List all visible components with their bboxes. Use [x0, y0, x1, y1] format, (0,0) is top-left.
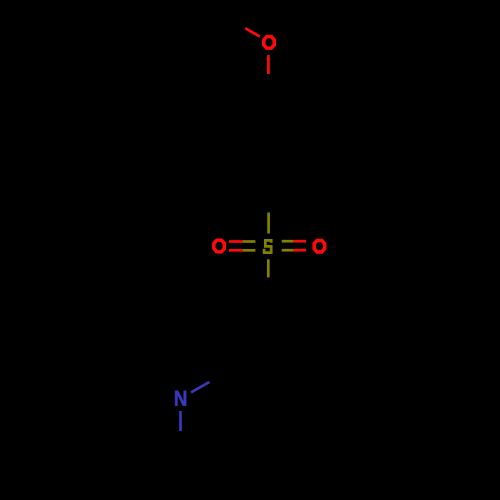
bond CH3-O (methoxy methyl to O, O-colored half) — [245, 28, 259, 36]
double bond S=O left, upper line S-half — [243, 240, 256, 243]
double bond S=O left, upper line O-half — [229, 240, 243, 243]
double bond S=O right, upper line S-half — [282, 240, 294, 243]
bond S-CH2 (sulfur to chain carbon, S-colored half) — [267, 259, 270, 277]
atom label S (sulfonyl sulfur) — [263, 239, 273, 254]
double bond S=O left, lower line S-half — [243, 249, 256, 252]
double bond S=O left, lower line O-half — [229, 249, 243, 252]
bond O-C1 (oxygen to ring carbon, O-colored half) — [267, 55, 270, 74]
atom label N (amine nitrogen) — [175, 391, 186, 406]
double bond S=O right, lower line O-half — [293, 249, 306, 252]
double bond S=O right, upper line O-half — [293, 240, 306, 243]
atom label O (sulfonyl left oxygen) — [212, 239, 226, 254]
double bond S=O right, lower line S-half — [282, 249, 294, 252]
bond N-CH3 (nitrogen to methyl, N-colored half) — [179, 411, 182, 431]
bond C-N (chain carbon to nitrogen, N-colored half) — [191, 382, 209, 392]
atom label O (methoxy oxygen) — [262, 35, 276, 50]
bond C4-S (ring carbon to sulfur, S-colored half) — [267, 213, 270, 234]
atom label O (sulfonyl right oxygen) — [312, 239, 326, 254]
